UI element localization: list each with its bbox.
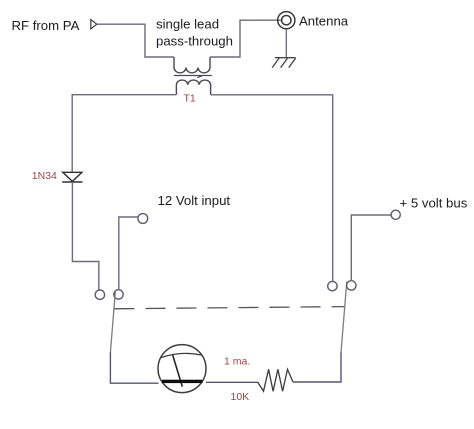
switch S1 blade: [110, 291, 115, 353]
wire transformer secondary left to diode: [72, 95, 176, 172]
transformer T1 core line: [174, 76, 212, 78]
svg-text:1N34: 1N34: [32, 170, 57, 182]
wire from RF input to transformer primary: [97, 24, 174, 57]
svg-text:pass-through: pass-through: [156, 34, 233, 49]
transformer T1 primary winding: [174, 57, 210, 73]
wire meter to resistor: [206, 381, 258, 383]
antenna jack connector U1: [278, 12, 295, 29]
transformer T1 secondary winding: [176, 80, 210, 95]
ground symbol: [272, 58, 296, 68]
switch S2 left contact: [328, 281, 337, 290]
svg-text:+ 5 volt bus: + 5 volt bus: [400, 196, 468, 211]
svg-text:12 Volt input: 12 Volt input: [158, 193, 231, 208]
wire switch S1 blade to bottom bus: [110, 353, 158, 384]
svg-text:1 ma.: 1 ma.: [224, 356, 250, 368]
switch S2 right contact: [347, 281, 356, 290]
svg-text:single lead: single lead: [156, 17, 219, 32]
wire resistor to right switch blade: [293, 353, 341, 383]
wire diode to left switch contact: [72, 182, 98, 290]
switch S2 blade: [341, 282, 347, 353]
ganged switch link (dashed): [115, 307, 345, 309]
input triangle marker: [91, 20, 97, 29]
svg-text:T1: T1: [184, 93, 196, 105]
diode D1 1N34: [62, 172, 82, 182]
svg-text:RF from PA: RF from PA: [12, 18, 80, 33]
meter M1: [158, 345, 206, 393]
wire antenna jack to ground: [285, 29, 287, 58]
wire 12 volt terminal to right switch contact: [119, 217, 138, 290]
svg-text:Antenna: Antenna: [299, 13, 349, 28]
wire from transformer primary to antenna jack: [210, 20, 282, 57]
wire transformer secondary right to switch S2 left contact: [211, 95, 333, 282]
switch S1 right contact: [114, 290, 123, 299]
resistor R1 10K: [258, 369, 293, 391]
switch S1 left contact: [95, 290, 104, 299]
wire +5 volt terminal to switch S2 right contact: [351, 215, 391, 281]
+5 volt bus terminal: [391, 210, 400, 219]
svg-text:10K: 10K: [231, 391, 250, 403]
12 volt input terminal: [138, 214, 148, 224]
